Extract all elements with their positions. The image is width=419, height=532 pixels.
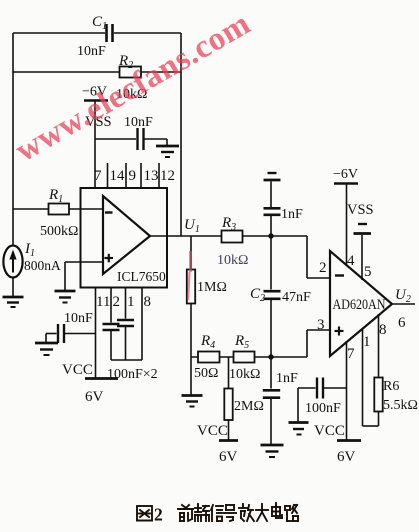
svg-text:VSS: VSS (347, 202, 374, 218)
op-amp ICL7650 triangle (103, 196, 150, 274)
op-amp U1 ICL7650 package box (81, 188, 168, 288)
caption figure label: char TU (figure) (137, 506, 152, 521)
svg-text:R1: R1 (48, 187, 63, 205)
wire: VCC line from ICL7650 pin 11 (95, 288, 97, 379)
svg-text:−6V: −6V (333, 167, 358, 182)
ground (inverted, AD620 pin 5) (354, 224, 372, 234)
ground (inverted, above upper 1nF) (264, 173, 281, 180)
svg-text:13: 13 (144, 168, 159, 184)
svg-text:100nF: 100nF (305, 401, 341, 416)
svg-text:6V: 6V (337, 449, 356, 465)
supply VCC 6V (ICL7650 pin 11) (62, 362, 118, 405)
pin 1 lead with capacitor (100nF b) (117, 288, 134, 361)
svg-text:C1: C1 (92, 14, 107, 32)
svg-text:5: 5 (364, 264, 372, 280)
wire: top feedback wire (C1 branch) (13, 32, 181, 34)
capacitor 10nF (VCC decoupling, bottom left) (46, 311, 96, 343)
caption char: FANG (release) (239, 504, 254, 521)
resistor R4 (194, 333, 220, 381)
capacitor C1 (77, 14, 113, 59)
svg-text:800nA: 800nA (24, 258, 61, 273)
pin number labels ICL7650 bottom (96, 294, 151, 310)
op-amp U2 AD620AN triangle (330, 251, 392, 356)
svg-text:50Ω: 50Ω (194, 366, 218, 381)
svg-text:U2: U2 (395, 287, 411, 305)
capacitor C2 47nF (250, 236, 311, 357)
watermark red streak over 1M resistor (188, 251, 191, 300)
svg-text:7: 7 (347, 346, 355, 362)
wire: bus joining pins 2,1,8 (111, 359, 142, 361)
minus input symbol AD620 (335, 274, 344, 276)
wire: right feedback rail (180, 33, 182, 236)
pin 2 lead with capacitor (100nF a) (103, 288, 120, 361)
svg-text:1MΩ: 1MΩ (197, 280, 227, 295)
svg-text:6V: 6V (219, 449, 238, 465)
svg-text:11: 11 (96, 294, 110, 310)
svg-text:2MΩ: 2MΩ (234, 399, 264, 414)
plus input symbol ICL7650 (105, 254, 114, 262)
pin 7 lead (VCC) (346, 341, 348, 440)
svg-text:1nF: 1nF (281, 207, 303, 222)
pin stubs ICL7650 top: pins 14,9,13,12 (108, 163, 160, 188)
svg-text:1: 1 (363, 334, 371, 350)
ground (10nF bottom left) (35, 343, 58, 355)
ground (1M ohm) (182, 396, 203, 407)
resistor R1 (40, 187, 78, 239)
svg-text:R4: R4 (200, 333, 215, 351)
node junction dot (upper, R3 out) (268, 233, 273, 238)
caption char: DIAN (electric) (272, 503, 282, 518)
resistor R3 (217, 215, 248, 268)
ground (I1) (3, 297, 24, 307)
svg-text:AD620AN: AD620AN (333, 297, 386, 313)
capacitor 100nF (AD620 VCC decoupling) (298, 378, 347, 422)
wire: to AD620 pin 3 (307, 330, 330, 357)
wire: U2 output pin 6 (392, 303, 415, 305)
svg-text:R5: R5 (234, 333, 249, 351)
capacitor 10nF (VSS decoupling) (95, 115, 167, 150)
svg-text:VCC: VCC (314, 423, 345, 439)
svg-text:1: 1 (127, 294, 135, 310)
watermark (10, 6, 258, 170)
pin 1 lead (363, 328, 379, 426)
wire: non-inverting input (65, 262, 103, 290)
resistor 2M ohm branch (224, 357, 264, 440)
caption char: XIN (letter) (211, 505, 223, 521)
pin 4 lead (346, 184, 348, 266)
supply VCC 6V (AD620 pin 7) (314, 423, 361, 465)
svg-text:14: 14 (110, 168, 126, 184)
svg-text:4: 4 (347, 253, 355, 269)
supply -6V VSS (ICL7650 pin7) (82, 85, 112, 189)
svg-text:2: 2 (154, 505, 163, 525)
svg-text:3: 3 (317, 317, 325, 333)
svg-text:6: 6 (398, 315, 406, 331)
ground (100nF) (289, 423, 309, 435)
capacitor 1nF (lower) (263, 357, 298, 444)
caption char: LU (road) (285, 505, 298, 521)
wire: to AD620 pin 2 (307, 236, 330, 278)
ground (non-inverting input) (55, 291, 76, 303)
supply VCC 6V (2M ohm) (197, 423, 238, 465)
svg-text:2: 2 (113, 294, 121, 310)
svg-text:I1: I1 (24, 241, 35, 259)
svg-text:U1: U1 (184, 217, 200, 235)
resistor 1M ohm (187, 270, 227, 304)
pin number labels ICL7650 top (94, 168, 175, 184)
svg-text:47nF: 47nF (282, 290, 311, 305)
svg-text:VCC: VCC (62, 362, 93, 378)
svg-text:C2: C2 (250, 286, 265, 304)
current source I1 (3, 209, 61, 296)
svg-text:10kΩ: 10kΩ (229, 367, 260, 382)
wire: R2 feedback wire (13, 71, 181, 73)
svg-text:9: 9 (129, 168, 137, 184)
caption char: HAO (number) (224, 505, 236, 521)
svg-text:VCC: VCC (197, 423, 228, 439)
svg-text:6V: 6V (85, 389, 104, 405)
svg-text:1nF: 1nF (276, 371, 298, 386)
svg-text:ICL7650: ICL7650 (117, 269, 166, 284)
svg-text:10kΩ: 10kΩ (217, 253, 248, 268)
supply -6V VSS (AD620 pin 4) (333, 167, 374, 218)
ground (VSS cap) (156, 139, 179, 157)
svg-text:R6: R6 (383, 379, 399, 394)
ground (lower 1nF) (261, 445, 284, 457)
svg-text:12: 12 (160, 168, 175, 184)
plus input symbol AD620 (335, 327, 344, 336)
svg-text:500kΩ: 500kΩ (40, 224, 78, 239)
node junction dot (lower, R5 out) (268, 354, 273, 359)
wire: lower signal line R4 R5 (191, 356, 307, 358)
caption char: QIAN (front) (178, 505, 193, 521)
svg-text:2: 2 (319, 260, 327, 276)
svg-text:10nF: 10nF (124, 115, 153, 130)
wire: U1 output line (150, 235, 307, 237)
resistor R6 5.5k (374, 378, 418, 414)
svg-text:5.5kΩ: 5.5kΩ (383, 398, 418, 413)
pin 5 lead (361, 235, 363, 280)
resistor R2 (116, 53, 147, 102)
svg-text:8: 8 (144, 294, 152, 310)
svg-text:7: 7 (94, 168, 102, 184)
wire: left input rail (12, 33, 14, 209)
svg-text:8: 8 (379, 322, 387, 338)
svg-text:10nF: 10nF (64, 311, 93, 326)
caption char: DA (big) (256, 504, 268, 521)
svg-text:10nF: 10nF (77, 44, 106, 59)
resistor R5 (229, 333, 260, 382)
wire: inverting input (13, 208, 103, 210)
pin 8 lead (141, 288, 143, 361)
capacitor 1nF (upper, to inverted ground) (264, 182, 304, 237)
svg-text:R3: R3 (221, 215, 236, 233)
wire: 1M ohm branch from U1 (190, 236, 192, 395)
svg-text:100nF×2: 100nF×2 (107, 367, 158, 382)
pin 8 lead (378, 314, 380, 426)
minus input symbol ICL7650 (105, 211, 113, 213)
caption char: DUAN (end) (195, 504, 209, 521)
